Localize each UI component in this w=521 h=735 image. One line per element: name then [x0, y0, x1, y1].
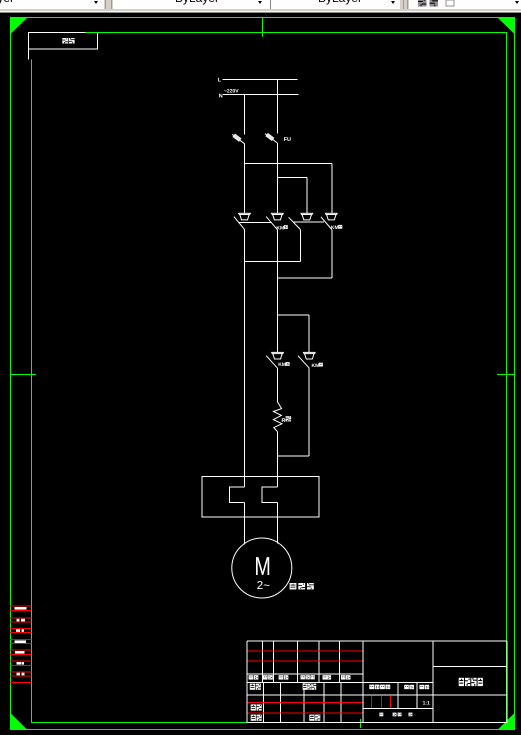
svg-text:L: L [218, 78, 222, 84]
svg-text:N: N [219, 93, 223, 99]
svg-text:1:1: 1:1 [423, 701, 430, 707]
svg-text:KM: KM [331, 225, 339, 231]
svg-text:KM: KM [278, 362, 286, 368]
svg-text:FU: FU [284, 137, 291, 143]
svg-text:R: R [282, 418, 286, 424]
svg-text:KM: KM [312, 363, 320, 369]
svg-text:2~: 2~ [257, 580, 270, 592]
svg-text:~220V: ~220V [224, 88, 239, 94]
svg-text:KM: KM [276, 225, 284, 231]
svg-text:M: M [254, 551, 270, 581]
